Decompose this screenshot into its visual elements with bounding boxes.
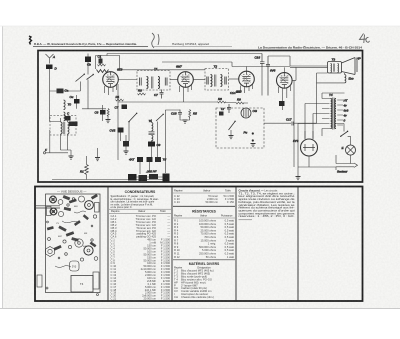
handwritten mark — [152, 33, 159, 48]
core lines oscillator — [63, 122, 65, 134]
tiny circle b — [72, 198, 75, 201]
ground bottom right — [296, 177, 301, 180]
switch S2 mid — [129, 114, 137, 122]
grid top loop wire — [96, 54, 120, 71]
header right underline — [257, 49, 362, 51]
T4 core — [332, 98, 334, 130]
capacitor C1 — [99, 59, 103, 64]
grommet 2 — [63, 240, 66, 243]
tube V3 shading — [242, 75, 251, 83]
field coil Exc — [345, 75, 346, 83]
grommet 5 — [80, 258, 83, 261]
extra socket spokes a — [51, 197, 56, 202]
column divider 1 — [107, 187, 109, 302]
capacitor C13 in Pu box — [219, 112, 224, 116]
capacitor C4 (padding) — [65, 116, 71, 121]
tiny circle d — [91, 239, 93, 241]
bus wire fourth — [120, 69, 206, 71]
wires squiggle mid — [62, 221, 80, 223]
tube V3 grid dashes — [243, 74, 251, 76]
tube V4 grid dashes — [281, 75, 289, 77]
bus wire second — [162, 62, 232, 67]
capacitor C14 — [236, 91, 241, 93]
rectifier tube V5 — [301, 139, 318, 156]
capacitor block under switch — [123, 141, 129, 147]
slug 8 — [54, 245, 62, 251]
top bus wire (AVC/HT) — [107, 53, 262, 55]
IF can circle f — [85, 201, 94, 210]
resistor R1 — [85, 165, 89, 175]
page top edge — [0, 25, 400, 27]
extra socket spokes b — [51, 209, 56, 214]
resistor slug 2 — [69, 199, 77, 204]
dial shaft lines — [36, 206, 60, 208]
tube V2 shading — [181, 76, 190, 84]
capacitor .005 PF — [149, 174, 158, 179]
side bracket — [93, 272, 99, 289]
tuning gang circle b — [50, 208, 57, 215]
ground under R2 — [106, 120, 111, 123]
wire R1 — [86, 156, 88, 180]
T3 windings — [331, 64, 332, 73]
tuning gang circle a — [50, 196, 57, 203]
capacitor Ca — [57, 89, 64, 94]
tube V1 grid dashes — [107, 74, 115, 76]
coil can c — [58, 200, 63, 205]
wire bus step — [268, 56, 290, 66]
coil T0 primary — [64, 100, 66, 110]
capacitor C7 — [160, 90, 164, 99]
wire C16 drop — [261, 67, 263, 95]
tone potentiometer P2 — [163, 174, 170, 182]
tube V4 shading — [279, 76, 288, 84]
ground (osc return) — [69, 156, 74, 159]
switch S1a — [76, 75, 85, 82]
oscillator block dashed boundary — [50, 116, 76, 136]
tube V2 pins — [180, 85, 192, 102]
wire osc bottom — [50, 118, 68, 150]
ground C18 R5 — [183, 120, 188, 123]
resistor R1b — [116, 99, 124, 101]
page bottom edge — [0, 308, 400, 310]
AVC line wire — [118, 102, 248, 103]
chassis outline — [46, 194, 101, 293]
ground jack — [251, 144, 256, 147]
wire Cu — [76, 95, 78, 109]
bottom right bus wire — [298, 124, 336, 168]
column divider 2 — [171, 187, 173, 302]
resistor slug 1 — [63, 195, 71, 200]
T4 primary winding — [331, 99, 332, 129]
T4 right taps — [337, 100, 343, 125]
tube V1 electrodes — [107, 72, 115, 88]
chassis mounting screw 2 — [97, 294, 99, 296]
extra slug 10 — [47, 226, 54, 230]
T4 tap wires to rectifier — [298, 99, 322, 139]
power transformer block — [71, 276, 93, 293]
bus wire third (plate supply) — [232, 66, 290, 68]
mains switch I — [341, 132, 348, 137]
resistor R5 — [189, 110, 191, 118]
switch S3 pickup — [229, 122, 236, 131]
tube V4 envelope — [277, 73, 293, 89]
ground mid-left — [95, 158, 100, 161]
wire V2 anode to T2 — [193, 79, 205, 81]
pickup dashed box Pu — [216, 108, 264, 148]
wire Cb — [87, 54, 89, 75]
pilot lamp E — [346, 145, 356, 155]
grommet 4 — [94, 257, 98, 261]
capacitor C7b — [122, 105, 128, 110]
tiny circle a — [67, 204, 69, 206]
T1 tuning cap right — [165, 78, 167, 86]
T2 cap left — [207, 77, 208, 85]
cathode network V4 — [279, 101, 285, 106]
bottom section outer frame — [35, 187, 363, 302]
capacitor C15 — [227, 104, 231, 113]
wire T2 to V3 grid — [229, 78, 239, 80]
grommet 3 — [68, 245, 71, 248]
T2 secondary coil — [221, 75, 223, 87]
wires mid cluster — [129, 119, 158, 174]
wire V4 plate to T3 — [292, 67, 296, 80]
T2 core — [215, 75, 216, 87]
left small bracket — [37, 275, 42, 287]
header centre underline — [152, 46, 232, 48]
tube socket h — [84, 246, 93, 255]
tube V2 grid dashes — [182, 74, 190, 76]
T1 core — [152, 77, 153, 89]
wire secteur pair — [336, 155, 354, 170]
wire antenna down — [49, 69, 51, 122]
tube V2 electrodes — [182, 72, 190, 88]
tiny circle e — [48, 238, 51, 241]
slug 7 — [71, 237, 78, 242]
slug 6 — [66, 231, 74, 236]
wire tone line C17 — [264, 122, 291, 124]
electrolytic can 5Y3 — [70, 261, 80, 271]
bus wire double to output — [290, 66, 328, 67]
handwritten page number 4o — [360, 34, 370, 44]
detector cell CG — [241, 108, 251, 118]
tube V4 pins — [278, 86, 290, 95]
capacitor Cu — [74, 99, 80, 104]
slug 9 — [90, 241, 97, 247]
resistor R3 — [138, 93, 146, 95]
resistor R9 — [236, 102, 244, 104]
wire C17 on — [294, 122, 317, 124]
V5 electrodes — [303, 144, 315, 151]
wire F to ground bus — [46, 130, 68, 153]
wires squiggle top — [74, 211, 86, 213]
capacitor C9b — [148, 142, 155, 147]
terminal strip right — [95, 203, 100, 213]
coil T0 secondary — [64, 112, 66, 121]
wire V4 screen up — [283, 67, 285, 72]
ground in Pu box — [229, 136, 234, 139]
wire pot row — [137, 176, 169, 178]
loudspeaker HP — [342, 58, 358, 75]
mounting dot 2 — [91, 225, 93, 227]
wire T1 to V2 grid — [170, 79, 178, 81]
tube V1 shading — [106, 76, 115, 84]
ground under CV2 — [124, 151, 129, 154]
terminal F — [43, 152, 45, 154]
octal socket hex — [46, 247, 55, 257]
heater wire run — [322, 93, 345, 99]
T1 secondary coil — [158, 77, 160, 89]
T2 cap right — [225, 77, 226, 85]
mounting dot 3 — [58, 257, 60, 259]
page left edge — [2, 26, 4, 309]
IF transformer T1 dashed box — [137, 71, 170, 91]
output transformer T3 — [328, 62, 342, 74]
T1 tuning cap left — [140, 78, 142, 86]
wire C8 — [102, 105, 104, 121]
tube V2 envelope — [178, 72, 194, 88]
bottom bus wire — [52, 179, 168, 181]
cap C5 blob — [69, 122, 78, 127]
slug 5 — [58, 226, 66, 232]
column divider 3 — [235, 187, 237, 302]
volume potentiometer P — [128, 174, 137, 181]
wire switch drops — [81, 80, 107, 117]
wire Ca row — [50, 90, 81, 92]
oscillator coil L2 — [68, 122, 70, 134]
secteur arrow — [354, 163, 358, 167]
capacitor C16 — [260, 54, 265, 68]
tube V3 envelope — [239, 71, 255, 87]
IF can circle e — [79, 196, 85, 202]
mounting dot 1 — [47, 221, 49, 223]
wire Exc — [317, 73, 345, 83]
grid coil hatching — [97, 70, 109, 73]
main schematic frame — [38, 51, 363, 183]
slug 4 — [91, 194, 98, 200]
capacitor CV2 — [118, 128, 124, 133]
IF transformer T2 dashed box — [205, 69, 229, 91]
chassis mounting screw 1 — [46, 287, 48, 289]
extra slug 12 — [74, 220, 81, 226]
wire V1 anode right — [118, 79, 137, 81]
tube V1 pins — [105, 85, 117, 95]
header left underline — [33, 46, 148, 48]
switch S2b — [156, 115, 163, 122]
resistor R2 — [98, 64, 106, 66]
tube V1 envelope — [103, 72, 119, 88]
tube socket g — [75, 239, 83, 247]
wire T3 to T4 drop — [317, 73, 328, 123]
capacitor C8 — [100, 110, 106, 115]
extra slug 11 — [83, 214, 89, 220]
T4 left taps — [322, 99, 331, 129]
wire squiggle bottom — [55, 266, 71, 268]
bracket rect left — [47, 207, 52, 216]
resistor slug 3 — [64, 207, 71, 211]
coil can d — [58, 211, 63, 216]
tube V3 electrodes — [243, 71, 251, 87]
switch S1b — [87, 75, 94, 80]
capacitor C17 — [292, 122, 294, 126]
small grommet — [93, 215, 96, 218]
oscillator coil L1 — [61, 122, 63, 134]
T4 secondary winding — [335, 99, 336, 129]
caps row 4AT — [137, 157, 143, 162]
T2 primary coil — [211, 75, 213, 87]
capacitor C18 — [178, 110, 182, 119]
wire V3 plate up — [246, 67, 248, 72]
wire lamp — [336, 124, 351, 164]
coil D (antenna coupling choke) — [46, 65, 53, 70]
capacitor Cb — [85, 57, 91, 63]
tiny circle c — [65, 253, 68, 256]
T1 primary coil — [147, 77, 149, 89]
antenna A — [46, 54, 54, 64]
resistor R8 — [218, 101, 226, 103]
wire V1 cathode down — [117, 84, 119, 160]
resistor R2 — [107, 109, 109, 117]
V5 pins — [305, 131, 313, 167]
capacitor .005 PF b — [139, 175, 148, 181]
tube V3 pins — [241, 84, 253, 93]
column divider 4 — [297, 187, 299, 302]
wire volume feed — [165, 110, 180, 173]
fold mark top-left — [29, 36, 32, 45]
jack terminals — [252, 132, 254, 134]
tube V4 electrodes — [280, 73, 288, 89]
capacitor C10 — [266, 56, 270, 96]
